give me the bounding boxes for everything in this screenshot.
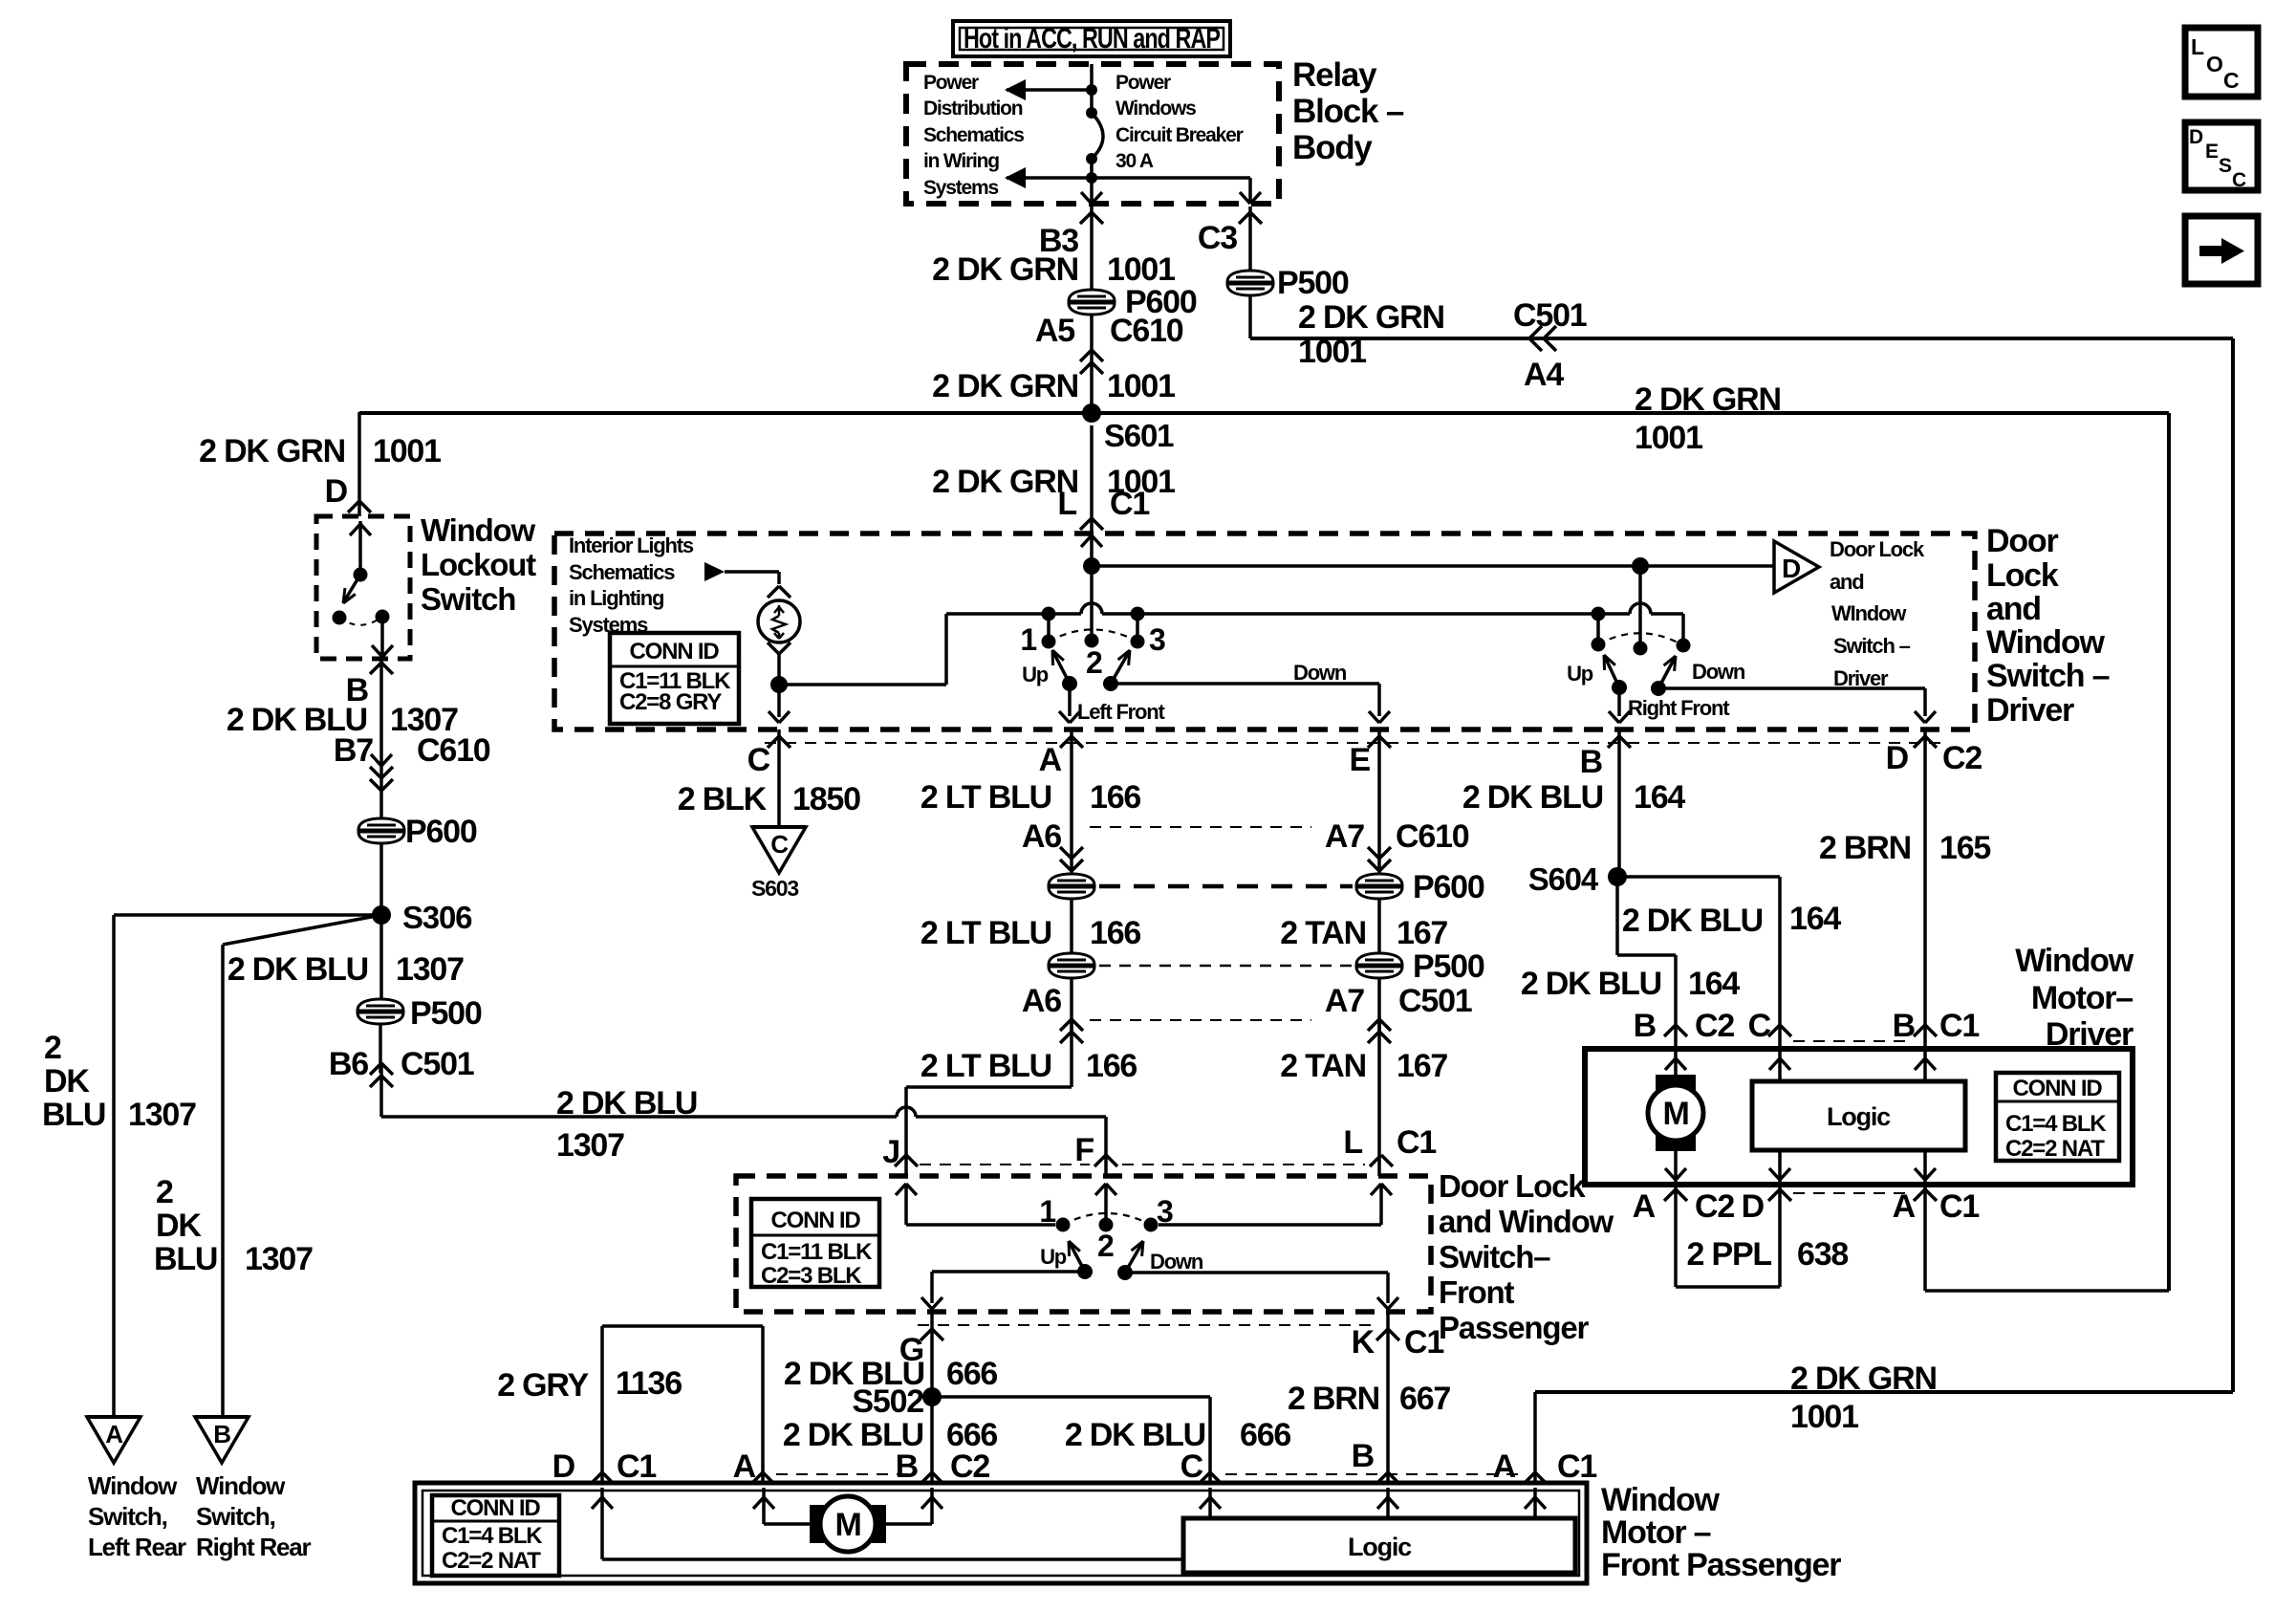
svg-text:C1: C1	[1557, 1448, 1596, 1485]
svg-text:2 TAN: 2 TAN	[1280, 915, 1366, 951]
svg-text:C2=2 NAT: C2=2 NAT	[2005, 1136, 2105, 1162]
svg-text:C1=4 BLK: C1=4 BLK	[2005, 1111, 2107, 1137]
svg-text:C: C	[1180, 1448, 1203, 1485]
svg-text:M: M	[834, 1507, 860, 1543]
label: 2 DK GRN 1001 (below S601)	[932, 464, 1175, 500]
svg-text:2 DK GRN: 2 DK GRN	[1298, 299, 1444, 336]
svg-text:B: B	[1634, 1008, 1657, 1044]
wire: 2 LT BLU 166 (A to C610)	[1070, 729, 1073, 822]
svg-text:C501: C501	[1513, 297, 1587, 334]
label: 2 DK GRN 1001 (bottom right)	[1790, 1361, 1937, 1435]
connector pin L C1 (passenger)	[1343, 1124, 1436, 1166]
wire: 2 BLK 1850 to S603	[777, 729, 781, 827]
svg-text:666: 666	[946, 1356, 997, 1392]
label: 2 TAN 167 (third)	[1280, 1048, 1447, 1084]
svg-text:Left Rear: Left Rear	[88, 1533, 186, 1561]
wire: 2 DK BLU 1307 (P600 to S306)	[379, 843, 383, 915]
svg-text:WIndow: WIndow	[1831, 601, 1907, 625]
wire: 2 DK GRN 1001 right vertical to driver motor A C1	[2167, 413, 2171, 1291]
svg-text:C: C	[2232, 169, 2246, 191]
splice S306	[372, 900, 472, 935]
wire: branch to power distribution (bottom)	[1005, 167, 1092, 188]
connector pin A C2 (driver motor bottom)	[1633, 1188, 1735, 1225]
splice to D pointer and switches	[1083, 557, 1774, 575]
grommet P600	[1069, 284, 1197, 320]
svg-text:DK: DK	[156, 1208, 202, 1244]
svg-text:2 PPL: 2 PPL	[1687, 1236, 1772, 1273]
icon: LOC button	[2185, 28, 2258, 97]
svg-text:and: and	[1830, 570, 1864, 594]
circuit breaker CB 30A	[1086, 64, 1103, 204]
svg-text:C2: C2	[1695, 1188, 1734, 1225]
svg-text:A: A	[1633, 1188, 1656, 1225]
label: contacts 1 2 3 (left front)	[1020, 622, 1165, 680]
svg-text:P500: P500	[410, 995, 482, 1032]
svg-text:Hot in ACC, RUN and RAP: Hot in ACC, RUN and RAP	[964, 23, 1220, 54]
connector pin B (lockout out)	[346, 663, 393, 708]
label: 2 DK BLU 1307 (second left)	[227, 951, 464, 988]
svg-text:L: L	[1343, 1124, 1362, 1161]
svg-text:Switch,: Switch,	[88, 1502, 167, 1531]
conn id box (passenger switch)	[751, 1199, 879, 1289]
svg-text:B: B	[1352, 1438, 1375, 1474]
svg-text:Motor –: Motor –	[1601, 1514, 1711, 1551]
svg-text:and Window: and Window	[1439, 1204, 1614, 1239]
svg-text:E: E	[2205, 141, 2219, 163]
svg-text:2 BRN: 2 BRN	[1819, 830, 1911, 866]
connector pin B C2 (driver motor)	[1634, 1008, 1735, 1044]
svg-text:Interior Lights: Interior Lights	[569, 533, 694, 557]
grommet P500 (A column)	[1049, 953, 1094, 978]
svg-text:2 DK GRN: 2 DK GRN	[1790, 1361, 1937, 1397]
wire: 2 DK GRN 1001 to C501 A4 and right side	[1250, 294, 2233, 1392]
wire: 2 LT BLU 166 (P600 to P500)	[1070, 899, 1073, 954]
grommet P500 (E column)	[1356, 948, 1484, 985]
svg-text:Block –: Block –	[1292, 93, 1404, 130]
svg-text:B7: B7	[334, 732, 373, 769]
grommet P600 (left)	[358, 814, 477, 850]
svg-text:Window: Window	[2015, 943, 2134, 979]
label: 2 LT BLU 166 (second)	[921, 915, 1141, 951]
label: Window Motor - Front Passenger	[1601, 1482, 1841, 1583]
svg-text:CONN ID: CONN ID	[771, 1208, 861, 1233]
label: 2 DK GRN 1001 (left)	[199, 433, 441, 469]
label: 2 DK BLU 164 (first)	[1462, 779, 1686, 816]
svg-text:Switch–: Switch–	[1439, 1239, 1550, 1274]
connector dashed line under passenger switch	[918, 1324, 1376, 1326]
svg-text:D: D	[2189, 126, 2203, 148]
svg-text:2 DK BLU: 2 DK BLU	[1521, 966, 1661, 1002]
svg-text:1: 1	[1039, 1194, 1055, 1229]
label: 2 DK BLU 666 (below S502)	[783, 1417, 998, 1453]
svg-text:666: 666	[1240, 1417, 1290, 1453]
svg-text:1307: 1307	[128, 1097, 196, 1133]
grommet P500 (C3)	[1227, 265, 1349, 301]
svg-text:2: 2	[156, 1174, 173, 1210]
connector dashed line C501	[1090, 1019, 1311, 1021]
svg-text:Distribution: Distribution	[923, 98, 1023, 120]
wire: B into logic (passenger)	[1377, 1488, 1398, 1518]
ground triangle C S603	[751, 827, 806, 901]
svg-text:Down: Down	[1150, 1250, 1203, 1274]
label: 2 DK BLU 164 (to C)	[1622, 901, 1842, 939]
label: 2 DK BLU 164 (to B C2)	[1521, 966, 1741, 1002]
wire: passenger Down contact to K	[1125, 1273, 1398, 1309]
svg-text:C2=8 GRY: C2=8 GRY	[619, 689, 722, 715]
svg-text:2 DK BLU: 2 DK BLU	[227, 951, 368, 988]
svg-text:B: B	[1893, 1008, 1916, 1044]
svg-text:C: C	[1748, 1008, 1771, 1044]
label: 2 DK BLU 1307	[227, 702, 458, 738]
wire: 2 PPL 638 loop	[1676, 1185, 1780, 1287]
connector pin A C1 (passenger motor right)	[1493, 1448, 1597, 1485]
connector dashed line C610	[1090, 826, 1311, 828]
svg-text:BLU: BLU	[42, 1097, 105, 1133]
svg-text:L: L	[1057, 486, 1076, 522]
connector pin C3	[1198, 212, 1262, 256]
svg-text:30 A: 30 A	[1116, 150, 1154, 172]
svg-text:C1=4 BLK: C1=4 BLK	[442, 1523, 543, 1549]
connector pin B C2 (passenger motor)	[896, 1448, 990, 1485]
connector pin B C1 (driver motor)	[1893, 1008, 1980, 1044]
connector pin G	[899, 1329, 943, 1368]
svg-text:C2: C2	[1695, 1008, 1734, 1044]
svg-text:C1: C1	[617, 1448, 656, 1485]
off-page triangle A (window switch left rear)	[87, 1417, 141, 1463]
wire: S604 to C (driver motor)	[1617, 877, 1780, 1049]
connector pin E (driver switch)	[1350, 736, 1391, 778]
svg-text:M: M	[1662, 1096, 1688, 1132]
wire: 2 DK BLU 666 (G to S502)	[930, 1314, 934, 1397]
wire: driver motor A C1 to 2 DK GRN bus	[1925, 1185, 2169, 1291]
svg-text:D: D	[1742, 1188, 1765, 1225]
svg-text:A6: A6	[1022, 983, 1061, 1019]
svg-text:C610: C610	[1396, 818, 1469, 855]
svg-text:Schematics: Schematics	[569, 560, 675, 584]
relay block dashed box	[906, 64, 1279, 204]
connector pin D C1 (passenger motor)	[552, 1448, 657, 1485]
svg-text:Window: Window	[88, 1471, 178, 1500]
icon: DESC button	[2185, 122, 2258, 191]
connector dashed line C1 (passenger top)	[920, 1164, 1365, 1165]
label: Interior Lights Schematics in Lighting Systems	[569, 533, 694, 637]
wire: 2 TAN 167 to L C1	[1377, 1019, 1381, 1176]
svg-text:Window: Window	[1986, 624, 2106, 661]
connector pin B (driver switch)	[1580, 736, 1631, 780]
door lock and window switch driver dashed box	[554, 533, 1975, 729]
svg-text:Front: Front	[1439, 1274, 1515, 1310]
label: Down (left front)	[1293, 661, 1347, 685]
svg-text:Logic: Logic	[1348, 1533, 1412, 1561]
svg-text:A: A	[105, 1420, 123, 1448]
label: Up (left front)	[1022, 663, 1049, 686]
svg-text:C1=11 BLK: C1=11 BLK	[761, 1239, 873, 1265]
svg-text:165: 165	[1939, 830, 1990, 866]
svg-text:2 DK GRN: 2 DK GRN	[932, 464, 1078, 500]
svg-text:Relay: Relay	[1292, 56, 1377, 94]
svg-text:Power: Power	[1116, 72, 1171, 94]
motor M (front passenger)	[753, 1488, 942, 1552]
window motor driver box	[1585, 1049, 2133, 1185]
svg-text:166: 166	[1086, 1048, 1137, 1084]
pointer to interior lights schematics	[704, 562, 779, 584]
svg-text:638: 638	[1797, 1236, 1848, 1273]
svg-text:in Lighting: in Lighting	[569, 586, 663, 610]
label: 2 TAN 167 (second)	[1280, 915, 1447, 951]
svg-text:Systems: Systems	[923, 177, 999, 199]
svg-text:Lock: Lock	[1986, 557, 2059, 594]
label: Down (passenger)	[1150, 1250, 1203, 1274]
connector pin C (passenger motor)	[1180, 1448, 1222, 1485]
svg-text:1001: 1001	[373, 433, 441, 469]
svg-text:J: J	[882, 1134, 899, 1170]
wire: left front Up contact to A	[1059, 684, 1080, 723]
wire: 2 DK GRN 1001 (B3 to P600)	[1090, 207, 1094, 290]
svg-text:Body: Body	[1292, 129, 1373, 166]
svg-text:164: 164	[1634, 779, 1685, 816]
label: Down (right front)	[1692, 660, 1745, 684]
logic box (driver motor)	[1752, 1081, 1965, 1150]
connector pin K C1	[1352, 1324, 1444, 1361]
wire: breaker output to C3	[1092, 178, 1261, 204]
svg-text:Window: Window	[1601, 1482, 1721, 1518]
connector A6 at C501	[1022, 978, 1083, 1043]
wire: right front Down contact to D	[1658, 688, 1936, 723]
wire: S604 to B C2 (driver motor)	[1617, 877, 1676, 1049]
svg-text:CONN ID: CONN ID	[630, 639, 720, 664]
label: 2 DK BLU 1307 (stacked left)	[42, 1030, 196, 1133]
wire: C3 to P500	[1248, 207, 1252, 272]
svg-text:1001: 1001	[1298, 334, 1366, 370]
svg-text:Door Lock: Door Lock	[1439, 1168, 1586, 1204]
svg-text:C: C	[770, 830, 789, 859]
switch rail (driver)	[946, 603, 1683, 645]
svg-text:Windows: Windows	[1116, 98, 1196, 120]
svg-text:C3: C3	[1198, 220, 1237, 256]
label: Window Lockout Switch	[421, 512, 536, 617]
svg-text:S306: S306	[402, 900, 472, 935]
svg-text:Passenger: Passenger	[1439, 1310, 1589, 1345]
wire: breaker output down B3	[1081, 192, 1102, 204]
lamp symbol (illumination)	[758, 586, 800, 654]
label: 2 LT BLU 166 (first)	[921, 779, 1141, 816]
label: Up (passenger)	[1040, 1245, 1067, 1269]
svg-text:and: and	[1986, 591, 2041, 627]
svg-text:166: 166	[1090, 915, 1140, 951]
svg-text:167: 167	[1397, 915, 1447, 951]
connector pin F	[1074, 1132, 1117, 1168]
connector A6 at C610	[1022, 818, 1083, 875]
svg-text:Right Rear: Right Rear	[196, 1533, 312, 1561]
svg-text:Switch –: Switch –	[1986, 658, 2110, 694]
wire: A column into P600	[0, 0, 1, 1]
wire: 2 GRY 1136 loop	[602, 1326, 763, 1483]
label: Up (right front)	[1567, 662, 1593, 686]
wire: passenger Up contact to G	[921, 1272, 1085, 1309]
svg-text:A: A	[1039, 742, 1062, 778]
label: contacts 1 2 3 (passenger)	[1039, 1194, 1173, 1263]
svg-text:in Wiring: in Wiring	[923, 150, 999, 172]
svg-text:1850: 1850	[792, 781, 860, 817]
svg-text:2 LT BLU: 2 LT BLU	[921, 779, 1051, 816]
svg-text:1001: 1001	[1790, 1399, 1858, 1435]
connector pin A (passenger motor left)	[733, 1448, 774, 1485]
svg-text:C1: C1	[1110, 486, 1149, 522]
wire: driver switch input from L C1	[1081, 533, 1102, 566]
svg-text:1001: 1001	[1107, 368, 1175, 404]
door lock and window switch front passenger dashed box	[736, 1176, 1431, 1312]
svg-text:C1: C1	[1397, 1124, 1436, 1161]
label: 2 DK BLU 1307 (horizontal)	[556, 1085, 697, 1164]
svg-text:BLU: BLU	[154, 1241, 217, 1277]
wire: 2 LT BLU 166 to J	[906, 1019, 1072, 1176]
svg-text:A7: A7	[1325, 983, 1364, 1019]
svg-text:A5: A5	[1035, 313, 1074, 349]
svg-text:B: B	[213, 1420, 230, 1448]
wire: 2 DK GRN 1001 to passenger motor A C1	[1535, 1392, 2233, 1483]
wire: S306 to window switch right rear	[223, 915, 381, 1417]
connector pin B3	[1039, 212, 1103, 259]
svg-text:B: B	[1580, 744, 1603, 780]
svg-text:A: A	[1493, 1448, 1516, 1485]
label: 2 BRN 165	[1819, 830, 1990, 866]
svg-text:2 TAN: 2 TAN	[1280, 1048, 1366, 1084]
svg-text:Schematics: Schematics	[923, 124, 1024, 146]
svg-text:E: E	[1350, 742, 1371, 778]
wire: right front Up contact to B	[1609, 687, 1630, 723]
svg-text:C610: C610	[417, 732, 490, 769]
svg-text:2 DK GRN: 2 DK GRN	[932, 368, 1078, 404]
svg-text:D: D	[1886, 740, 1909, 776]
icon: next-page arrow button	[2185, 216, 2258, 284]
connector A5 C610	[1035, 313, 1183, 413]
svg-text:2 BLK: 2 BLK	[678, 781, 768, 817]
label: Door Lock and Window Switch Front Passenger (outer)	[1439, 1168, 1614, 1345]
wire: 2 BRN 667 (K to B)	[1386, 1314, 1390, 1483]
svg-text:Switch –: Switch –	[1833, 634, 1911, 658]
label: 2 DK GRN 1001 (C3 branch)	[1298, 299, 1444, 370]
svg-text:C501: C501	[401, 1046, 474, 1082]
svg-text:2 GRY: 2 GRY	[497, 1367, 589, 1404]
wire: D C1 to logic (passenger)	[592, 1488, 1183, 1559]
connector pin A C1 (driver motor bottom)	[1893, 1188, 1980, 1225]
svg-text:P600: P600	[405, 814, 477, 850]
label: 2 DK GRN 1001 (second)	[932, 368, 1175, 404]
svg-text:S601: S601	[1104, 418, 1174, 453]
pointer triangle D (door lock)	[1774, 541, 1819, 593]
svg-text:2 LT BLU: 2 LT BLU	[921, 915, 1051, 951]
label: Power Windows Circuit Breaker 30 A	[1116, 72, 1244, 172]
wire: A C1 into logic (passenger)	[1525, 1488, 1546, 1518]
label: Window Switch, Right Rear	[196, 1471, 312, 1561]
connector pin C (driver motor)	[1748, 1008, 1791, 1044]
junction of lamp and switch rail	[770, 614, 946, 693]
wire: branch to power distribution (top)	[1005, 79, 1092, 100]
svg-text:S604: S604	[1528, 861, 1599, 897]
conn id box (driver motor)	[1996, 1073, 2119, 1162]
svg-text:1136: 1136	[616, 1365, 682, 1402]
label: 2 DK GRN 1001	[932, 251, 1175, 288]
svg-text:CONN ID: CONN ID	[2013, 1076, 2103, 1101]
wire: 2 DK BLU 1307 to front passenger switch F	[381, 1063, 1106, 1176]
svg-text:A6: A6	[1022, 818, 1061, 855]
svg-text:P600: P600	[1413, 869, 1484, 905]
svg-text:D: D	[552, 1448, 575, 1485]
svg-text:Driver: Driver	[1986, 692, 2074, 729]
passenger switch contacts	[1056, 1213, 1159, 1280]
svg-text:C2=2 NAT: C2=2 NAT	[442, 1548, 541, 1574]
svg-text:Up: Up	[1040, 1245, 1067, 1269]
svg-text:A7: A7	[1325, 818, 1364, 855]
svg-text:2 DK BLU: 2 DK BLU	[556, 1085, 697, 1121]
svg-text:2 DK GRN: 2 DK GRN	[932, 251, 1078, 288]
wire: C into logic (driver)	[1769, 1049, 1790, 1081]
window lockout switch dashed box	[316, 516, 410, 659]
switch: window lockout	[333, 521, 394, 657]
connector dashed line (driver motor bottom)	[1793, 1192, 1912, 1194]
svg-text:C: C	[2223, 68, 2239, 93]
svg-text:2: 2	[1097, 1229, 1114, 1263]
svg-text:Lockout: Lockout	[421, 547, 536, 582]
svg-text:Up: Up	[1022, 663, 1049, 686]
svg-text:1001: 1001	[1107, 251, 1175, 288]
svg-text:Up: Up	[1567, 662, 1593, 686]
label box: Hot in ACC, RUN and RAP	[953, 21, 1230, 56]
connector A7 C501	[1325, 978, 1472, 1043]
svg-text:2 DK GRN: 2 DK GRN	[1635, 381, 1781, 418]
dashed link between P600 grommets	[1099, 884, 1353, 889]
svg-text:Switch: Switch	[421, 581, 515, 617]
svg-text:Window: Window	[421, 512, 535, 548]
label: Left Front	[1077, 700, 1166, 724]
grommet P500 (left)	[357, 995, 482, 1032]
wire: 2 DK BLU 666 (S502 to C)	[932, 1397, 1210, 1483]
svg-text:P500: P500	[1277, 265, 1349, 301]
svg-text:S603: S603	[751, 876, 798, 901]
svg-text:Left Front: Left Front	[1077, 700, 1166, 724]
label: Window Switch, Left Rear	[88, 1471, 186, 1561]
connector pin D (driver motor bottom)	[1742, 1188, 1791, 1225]
wire: 2 TAN 167 (P600 to P500)	[1377, 899, 1381, 954]
label: 2 DK BLU 666 (above S502)	[784, 1356, 998, 1392]
svg-text:C610: C610	[1110, 313, 1183, 349]
svg-text:1307: 1307	[245, 1241, 313, 1277]
label: 2 BLK 1850	[678, 781, 860, 817]
wire: 2 DK GRN 1001 left branch to lockout switch	[357, 412, 361, 516]
wire: 2 DK BLU 666 (S502 to B C2)	[930, 1397, 934, 1483]
svg-text:Door: Door	[1986, 523, 2058, 559]
svg-text:C2: C2	[950, 1448, 989, 1485]
connector pin L C1 (driver switch)	[1057, 425, 1149, 532]
svg-text:P500: P500	[1413, 948, 1484, 985]
wire: A C1 from logic (driver)	[1915, 1150, 1936, 1182]
wire: 2 BRN 165 (D C2 to B C1)	[1923, 729, 1927, 1049]
wire: lamp to splice	[769, 654, 790, 723]
wire: S306 to P500	[379, 915, 383, 1002]
wire: 2 DK GRN 1001 (C610 to S601)	[0, 0, 1, 1]
svg-text:3: 3	[1157, 1194, 1173, 1229]
svg-text:CONN ID: CONN ID	[451, 1495, 541, 1521]
svg-text:C2=3 BLK: C2=3 BLK	[761, 1263, 862, 1289]
svg-text:C1: C1	[1939, 1188, 1979, 1225]
svg-text:S: S	[2219, 155, 2232, 177]
connector line C1/C2 under driver switch	[765, 742, 1940, 744]
wire: 2 DK BLU 1307 (C610 to P600)	[0, 0, 1, 1]
svg-text:167: 167	[1397, 1048, 1447, 1084]
svg-text:Front Passenger: Front Passenger	[1601, 1547, 1841, 1583]
window motor front passenger box	[415, 1483, 1587, 1583]
svg-text:Switch,: Switch,	[196, 1502, 275, 1531]
